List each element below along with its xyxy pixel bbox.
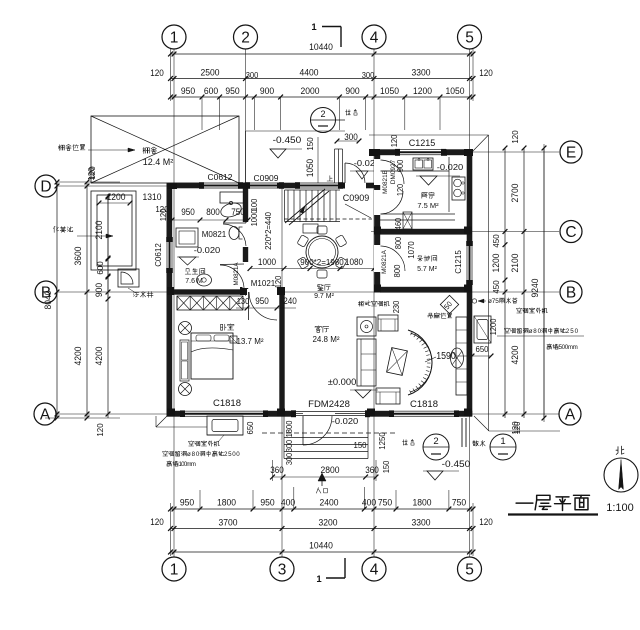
window C0612 in left wall (167, 242, 173, 268)
interior wall C (380, 229, 467, 235)
window C1215 in E wall (400, 149, 441, 155)
svg-text:900: 900 (94, 283, 104, 297)
svg-text:ø75: ø75 (488, 298, 499, 305)
svg-text:C0612: C0612 (154, 243, 163, 267)
svg-text:120: 120 (87, 166, 97, 179)
bathroom floor drain (179, 257, 196, 265)
bathroom toilet (229, 227, 239, 240)
kitchen door DM0927 in axis4 wall (374, 159, 381, 185)
svg-text:230: 230 (392, 300, 401, 313)
svg-text:950: 950 (260, 498, 274, 508)
svg-text:800: 800 (394, 236, 403, 249)
svg-text:A: A (565, 406, 576, 423)
left horizontal extension D (57, 181, 120, 183)
axis bubble 4 bottom (362, 557, 386, 581)
svg-text:120: 120 (150, 68, 164, 78)
svg-text:4: 4 (370, 561, 379, 578)
svg-text:M0821A: M0821A (381, 249, 388, 274)
svg-text:C1818: C1818 (410, 399, 438, 410)
right dim line inner 450 1200 450 ... (504, 148, 506, 418)
svg-text:E: E (566, 144, 576, 161)
exterior wall top D (167, 183, 379, 189)
svg-text:150: 150 (382, 460, 391, 473)
axis bubble B right (560, 281, 582, 303)
axis bubble E right (560, 141, 582, 163)
armchair bottom (376, 388, 400, 404)
detail bubble 2 top (311, 108, 336, 133)
svg-text:300: 300 (285, 452, 294, 465)
bathroom door M0821A upper (243, 222, 249, 247)
interior wall B right (380, 287, 467, 293)
svg-text:900: 900 (396, 159, 405, 172)
svg-text:220*2=440: 220*2=440 (264, 212, 273, 250)
svg-text:1000: 1000 (250, 209, 259, 226)
svg-text:1: 1 (500, 436, 505, 447)
svg-text:1200: 1200 (107, 192, 126, 202)
svg-text:1050: 1050 (380, 86, 399, 96)
exterior wall bottom A (167, 411, 473, 417)
svg-text:1: 1 (311, 22, 317, 33)
svg-text:3: 3 (278, 561, 287, 578)
detail bubble 2 bottom (423, 434, 449, 460)
svg-text:-0.020: -0.020 (194, 245, 221, 255)
svg-text:4200: 4200 (73, 347, 83, 366)
svg-text:1200: 1200 (489, 318, 498, 335)
svg-text:1:100: 1:100 (606, 502, 634, 514)
AC right notes (517, 308, 522, 313)
svg-text:300: 300 (246, 71, 259, 80)
svg-text:400: 400 (281, 498, 295, 508)
svg-text:C0909: C0909 (343, 193, 370, 203)
shed crossed rectangle 12.4m2 (91, 116, 239, 183)
svg-text:120: 120 (479, 68, 493, 78)
TV set (451, 348, 464, 368)
apron right corner (474, 416, 489, 431)
svg-text:B: B (41, 284, 51, 301)
svg-text:120: 120 (510, 130, 520, 143)
svg-text:2500: 2500 (224, 451, 240, 458)
washing machine lower (197, 274, 212, 286)
svg-text:1250: 1250 (377, 432, 387, 450)
living labels (315, 326, 321, 332)
sanshui label (473, 441, 479, 447)
svg-text:C: C (565, 224, 576, 241)
svg-text:650: 650 (245, 421, 255, 434)
svg-text:7.5 M²: 7.5 M² (417, 201, 439, 210)
sewage well label (133, 292, 138, 297)
svg-text:2500: 2500 (201, 68, 220, 78)
svg-text:150: 150 (305, 137, 315, 150)
left dim line 3600 4200 (86, 182, 88, 418)
svg-text:M0821B: M0821B (382, 170, 389, 194)
svg-text:4200: 4200 (94, 347, 104, 366)
kitchen counter edge (380, 170, 449, 172)
svg-text:13.7 M²: 13.7 M² (236, 337, 263, 346)
svg-text:120: 120 (274, 275, 283, 288)
armchair top (378, 315, 398, 331)
svg-text:120: 120 (390, 134, 399, 147)
kitchen counter lower edge (380, 213, 455, 215)
axis line E horizontal (371, 151, 559, 153)
svg-text:950: 950 (255, 296, 269, 306)
axis bubble B left (35, 281, 57, 303)
cabinet AC unit (357, 317, 376, 336)
left dim line inner 2100 600 900 4200 (107, 196, 109, 418)
svg-text:300: 300 (344, 132, 358, 142)
window C0909 right in D wall (300, 183, 338, 189)
svg-text:1800: 1800 (413, 498, 432, 508)
svg-text:800: 800 (392, 264, 402, 277)
svg-text:1200: 1200 (413, 86, 432, 96)
svg-text:250: 250 (566, 328, 579, 335)
axis bubble 5 bottom (458, 557, 482, 581)
axis line D horizontal (57, 185, 378, 187)
svg-text:1800: 1800 (285, 420, 294, 437)
svg-text:100: 100 (250, 198, 259, 211)
septic tank inner rect (97, 195, 132, 266)
bedroom door M1021 in B wall (247, 289, 277, 295)
coffee table (387, 348, 408, 376)
svg-text:1070: 1070 (406, 241, 416, 259)
svg-text:A: A (40, 406, 51, 423)
north compass (604, 458, 638, 492)
exterior wall right (467, 149, 473, 416)
porch steps (284, 437, 368, 439)
detail bubble 1 bottom (490, 434, 516, 460)
rear porch outline (245, 131, 247, 183)
svg-text:4200: 4200 (510, 346, 520, 365)
roof eave outline top-right (369, 134, 489, 136)
svg-text:±0.000: ±0.000 (328, 377, 357, 387)
svg-text:2: 2 (241, 29, 250, 46)
svg-text:2: 2 (433, 436, 438, 447)
exterior wall left (167, 183, 173, 416)
axis line 3 vertical (281, 186, 283, 557)
svg-text:-0.020: -0.020 (437, 162, 464, 172)
bedroom bed (191, 333, 233, 379)
shed text (143, 147, 150, 153)
svg-text:2000: 2000 (301, 86, 320, 96)
axis bubble 1 top (162, 25, 186, 49)
svg-text:M0821: M0821 (202, 230, 227, 239)
top dim row3 950 600 950 / 300 900 2000 900 300 / 1050 1200 1050 (171, 96, 474, 98)
axis line C horizontal (371, 231, 559, 233)
svg-text:3300: 3300 (412, 518, 431, 528)
svg-text:1: 1 (170, 561, 179, 578)
svg-text:-0.450: -0.450 (442, 459, 471, 469)
bottom dim extension lines (200, 487, 449, 509)
svg-text:10440: 10440 (309, 42, 333, 52)
svg-text:240: 240 (283, 296, 297, 306)
bedroom bench (180, 340, 189, 381)
svg-text:500mm: 500mm (559, 344, 578, 351)
axis line 4 vertical (373, 49, 375, 557)
bedroom stool bottom (179, 383, 192, 396)
svg-text:-0.450: -0.450 (273, 135, 302, 145)
svg-text:1: 1 (316, 574, 322, 585)
svg-text:5: 5 (465, 561, 474, 578)
svg-text:24.8 M²: 24.8 M² (312, 335, 339, 344)
stair treads (288, 190, 336, 222)
window C1818 living in A wall (394, 411, 454, 417)
svg-text:5.7 M²: 5.7 M² (417, 266, 438, 273)
storage door M0821A in axis4 wall (374, 245, 381, 272)
svg-text:C0909: C0909 (253, 173, 278, 183)
svg-text:-0.020: -0.020 (332, 416, 359, 426)
stair dashed continuation (284, 218, 372, 220)
svg-text:900: 900 (260, 86, 274, 96)
svg-text:C1818: C1818 (213, 398, 241, 409)
svg-text:400: 400 (362, 498, 376, 508)
svg-text:650: 650 (476, 344, 489, 354)
shed label leader (58, 145, 64, 151)
axis bubble A left (34, 403, 56, 425)
stair up label (327, 176, 333, 181)
tiaotai label bottom (402, 440, 407, 445)
svg-text:C0612: C0612 (207, 172, 232, 182)
svg-text:C1215: C1215 (409, 138, 436, 148)
TV cabinet (456, 317, 467, 395)
interior wall axis2 (243, 188, 248, 294)
apron left corner (156, 416, 167, 427)
kitchen door M0821B in axis4 wall (374, 190, 381, 215)
svg-text:450: 450 (491, 280, 501, 293)
AC outdoor unit right (474, 316, 491, 343)
svg-text:950: 950 (181, 86, 195, 96)
svg-text:D: D (40, 178, 51, 195)
svg-text:2400: 2400 (320, 498, 339, 508)
title underline (508, 513, 598, 515)
axis bubble D left (35, 175, 57, 197)
bathroom door lower (243, 262, 249, 288)
rear door swing (345, 183, 366, 189)
svg-text:120: 120 (396, 183, 405, 196)
svg-text:950: 950 (225, 86, 239, 96)
svg-text:100mm: 100mm (179, 461, 196, 468)
svg-text:3200: 3200 (319, 518, 338, 528)
entry arrow (318, 473, 326, 481)
svg-text:900*2=1980: 900*2=1980 (300, 257, 344, 267)
top dim row overall 10440 (171, 53, 474, 55)
ceiling fan label (428, 313, 433, 318)
right dim line 2700 2100 4200 (523, 148, 525, 418)
top dim extension lines (202, 97, 440, 130)
axis bubble 5 top (458, 25, 482, 49)
svg-text:2800: 2800 (321, 465, 340, 475)
svg-text:950: 950 (181, 207, 195, 217)
svg-text:M0821A: M0821A (233, 262, 240, 286)
axis line 5 vertical (469, 49, 471, 557)
kitchen level symbol (420, 176, 437, 185)
title yiceng pingmian (516, 502, 533, 504)
wall junction blocks (167, 183, 177, 189)
entry canopy dashed (262, 432, 398, 434)
svg-text:ø80: ø80 (187, 451, 200, 458)
axis line B horizontal (57, 291, 559, 293)
rain pipe note (472, 299, 476, 303)
svg-text:460: 460 (394, 217, 403, 230)
svg-text:9.7 M²: 9.7 M² (314, 293, 335, 300)
svg-text:1080: 1080 (345, 257, 363, 267)
svg-text:2100: 2100 (94, 221, 104, 240)
cabinet AC label (358, 301, 364, 306)
svg-text:750: 750 (378, 498, 392, 508)
svg-text:3600: 3600 (73, 247, 83, 266)
svg-text:12.4 M²: 12.4 M² (143, 157, 174, 167)
bottom dim row1 950 1800 950 400 2400 400 750 1800 750 (171, 508, 474, 510)
septic label (53, 226, 58, 232)
svg-text:4: 4 (370, 29, 379, 46)
svg-text:1310: 1310 (143, 192, 162, 202)
svg-text:750: 750 (452, 498, 466, 508)
dining labels (318, 285, 324, 291)
svg-text:2100: 2100 (510, 254, 520, 273)
ceiling fan diamond (440, 295, 458, 313)
svg-text:2: 2 (320, 109, 325, 119)
right dim line overall 9240 (543, 148, 545, 418)
exterior wall E kitchen top (369, 149, 472, 155)
svg-text:300: 300 (285, 439, 294, 452)
svg-text:2700: 2700 (510, 184, 520, 203)
axis line 1 vertical (173, 49, 175, 557)
svg-text:750: 750 (231, 207, 245, 217)
apron cut marks (461, 418, 463, 447)
svg-text:ø80: ø80 (529, 328, 542, 335)
svg-text:4400: 4400 (300, 68, 319, 78)
axis bubble A right (559, 403, 581, 425)
interior wall B left (172, 289, 280, 294)
axis bubble 4 top (362, 25, 386, 49)
axis line 2 vertical (245, 49, 247, 296)
svg-text:1000: 1000 (258, 257, 276, 267)
svg-text:600: 600 (204, 86, 218, 96)
axis bubble 2 top (234, 25, 258, 49)
bottom dim row3 overall 10440 (171, 551, 474, 553)
svg-text:130: 130 (237, 297, 250, 306)
svg-text:150: 150 (354, 440, 367, 450)
tiaotai label top (345, 110, 350, 115)
sofa (357, 339, 376, 386)
bathroom label (185, 269, 191, 274)
kitchen stove (452, 177, 465, 200)
AC bedroom leader (218, 435, 224, 442)
svg-text:1200: 1200 (491, 254, 501, 273)
interior wall axis3 bedroom right (279, 292, 284, 411)
storage labels (417, 256, 422, 262)
bedroom label (221, 324, 227, 330)
sewage well box (118, 269, 139, 287)
window C0612 in D wall (204, 183, 238, 189)
bedroom wardrobe (177, 296, 243, 310)
door-window FDM2428 in A wall (296, 411, 365, 418)
svg-text:120: 120 (150, 517, 164, 527)
kitchen labels (422, 193, 428, 199)
svg-text:B: B (566, 284, 576, 301)
window C1215 in right wall (467, 246, 473, 280)
svg-text:120: 120 (95, 423, 105, 436)
curved screen arc (408, 330, 432, 395)
interior wall axis4 (374, 154, 380, 290)
svg-text:950: 950 (180, 498, 194, 508)
axis line A horizontal (56, 413, 559, 415)
bathroom counter basin (220, 192, 244, 203)
AC outdoor unit bedroom (207, 416, 243, 435)
svg-text:3300: 3300 (412, 68, 431, 78)
axis bubble 3 bottom (270, 557, 294, 581)
dining table (306, 236, 338, 268)
stair break line with arrow (285, 189, 325, 223)
svg-text:9240: 9240 (530, 279, 540, 298)
bathroom shower (176, 228, 198, 247)
svg-text:1: 1 (170, 29, 179, 46)
bottom dim row2 3700 3200 3300 (171, 528, 474, 530)
svg-text:7.6 M: 7.6 M (185, 278, 203, 285)
rear steps (334, 149, 336, 183)
left dim line 8040 overall (56, 182, 58, 418)
window C1818 bedroom in A wall (185, 411, 263, 417)
svg-text:600: 600 (95, 261, 105, 274)
entry door swing FDM2428 (302, 416, 304, 445)
svg-text:300: 300 (362, 71, 375, 80)
svg-text:10440: 10440 (309, 541, 333, 551)
svg-text:900: 900 (345, 86, 359, 96)
svg-text:1050: 1050 (446, 86, 465, 96)
svg-text:C1215: C1215 (454, 250, 463, 274)
svg-text:5: 5 (465, 29, 474, 46)
top dim row2 2500 4400 3300 (171, 78, 474, 80)
kitchen duct (403, 212, 412, 229)
axis bubble C right (560, 221, 582, 243)
svg-text:120: 120 (479, 517, 493, 527)
window C0909 left in D wall (250, 183, 279, 189)
bedroom stool top (179, 322, 192, 335)
kitchen sink (413, 158, 433, 170)
svg-text:360: 360 (365, 465, 379, 475)
svg-text:M1021: M1021 (251, 279, 276, 288)
svg-text:120: 120 (159, 208, 168, 221)
septic tank outer rect (91, 191, 136, 270)
svg-text:120: 120 (513, 421, 522, 434)
svg-text:FDM2428: FDM2428 (308, 399, 350, 410)
svg-text:450: 450 (491, 234, 501, 247)
svg-text:1800: 1800 (217, 498, 236, 508)
svg-text:1050: 1050 (305, 159, 315, 177)
svg-text:800: 800 (206, 207, 220, 217)
svg-text:3700: 3700 (219, 518, 238, 528)
dining sideboard (303, 224, 318, 233)
axis bubble 1 bottom (162, 557, 186, 581)
